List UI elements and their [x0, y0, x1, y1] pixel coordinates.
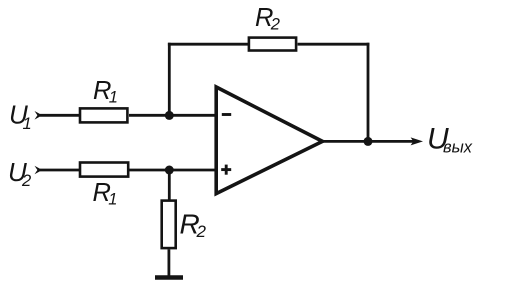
output arrow: [411, 137, 423, 145]
junction at inverting input: [165, 111, 174, 120]
wire feedback top left segment: [168, 43, 248, 46]
resistor R1 (inverting input): [80, 77, 127, 123]
resistor R2 (to ground): [162, 201, 207, 249]
wire R2 to ground: [167, 250, 170, 278]
wire feedback top right segment: [298, 43, 370, 46]
svg-text:2: 2: [270, 16, 280, 34]
wire U2 input: [40, 169, 79, 172]
wire U1 input: [40, 114, 79, 117]
junction at output: [364, 137, 373, 146]
op-amp U1 triangle: [216, 87, 322, 194]
junction at non-inverting input: [165, 166, 174, 175]
non-inverting input marker (plus): [221, 165, 231, 175]
wire R1 to non-inverting input: [129, 169, 219, 172]
svg-text:вых: вых: [443, 139, 473, 157]
input arrow U1: [35, 111, 43, 120]
resistor R1 (non-inverting input): [80, 163, 128, 209]
svg-text:1: 1: [108, 191, 117, 209]
wire junction to R2 lower: [168, 170, 171, 200]
input arrow U2: [35, 166, 43, 175]
ground: [155, 275, 183, 280]
inverting input marker (minus): [222, 113, 231, 116]
wire feedback left vertical: [168, 43, 171, 116]
wire R1 to inverting input: [129, 114, 219, 117]
node U2: [8, 157, 31, 190]
svg-text:2: 2: [21, 172, 31, 190]
svg-text:1: 1: [109, 89, 118, 107]
node U_out: [427, 123, 473, 157]
svg-text:2: 2: [196, 222, 207, 241]
resistor R2 (feedback): [249, 4, 296, 51]
wire output: [321, 140, 414, 143]
node U1: [9, 100, 32, 133]
wire feedback right vertical: [367, 43, 370, 142]
svg-text:1: 1: [23, 115, 32, 133]
